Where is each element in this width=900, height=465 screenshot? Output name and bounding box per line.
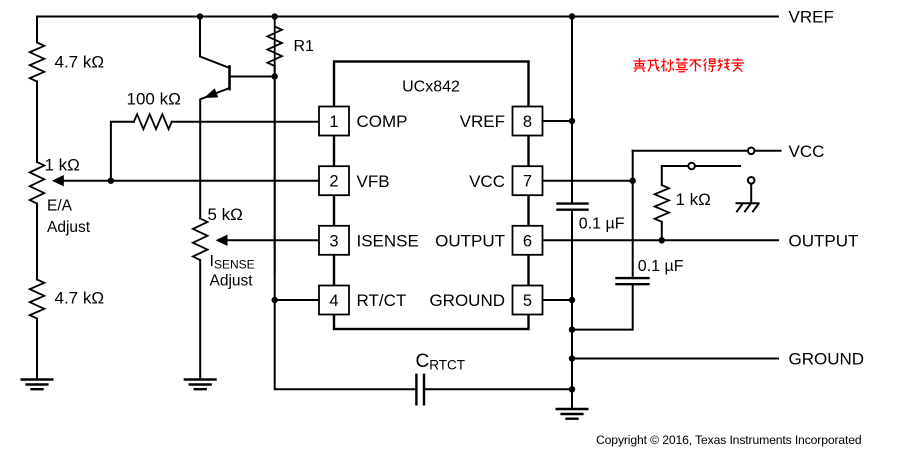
wire pin 7 VCC to branch (543, 180, 633, 182)
junction node branch return / rail (569, 326, 575, 332)
svg-text:Copyright © 2016, Texas Instru: Copyright © 2016, Texas Instruments Inco… (596, 433, 862, 447)
terminal open circle VCC (748, 148, 755, 155)
transistor Q1 emitter wire (200, 88, 229, 219)
wire pin 8 VREF to rail (543, 120, 573, 122)
wire R1 bottom node down to CRTCT (275, 66, 416, 389)
wire lower 4.7k to ground (36, 319, 38, 380)
potentiometer 1 kOhm E/A Adjust (30, 162, 45, 204)
wire VCC row to terminal (633, 150, 748, 152)
svg-text:VREF: VREF (460, 112, 505, 131)
chassis ground symbol (737, 203, 759, 211)
svg-text:OUTPUT: OUTPUT (789, 231, 859, 250)
junction node top rail / rail (569, 13, 575, 19)
arrowhead ISENSE wiper (216, 235, 228, 246)
resistor 4.7 kOhm lower-left (30, 280, 45, 319)
svg-text:8: 8 (523, 113, 532, 131)
IC U1 UCx842 body (334, 62, 529, 330)
junction node VFB / 100k (108, 178, 114, 184)
svg-text:E/A: E/A (47, 198, 73, 215)
svg-text:RT/CT: RT/CT (357, 291, 407, 310)
svg-text:OUTPUT: OUTPUT (435, 232, 505, 251)
resistor 100 kOhm (134, 114, 172, 129)
svg-text:R1: R1 (294, 38, 315, 55)
resistor R1 (267, 17, 282, 275)
wire between upper 4.7k and E/A pot (36, 82, 38, 163)
pin 2 box (319, 166, 349, 195)
wire VCC branch vertical (632, 151, 634, 278)
svg-text:VCC: VCC (789, 142, 825, 161)
ground left chain (22, 380, 53, 390)
junction node pin8 / rail (569, 118, 575, 124)
capacitor CRTCT right plate (423, 375, 425, 405)
svg-text:ISENSE: ISENSE (357, 232, 419, 251)
svg-text:0.1 µF: 0.1 µF (579, 215, 625, 232)
svg-text:1: 1 (329, 113, 338, 131)
wire CRTCT to ground rail (425, 388, 572, 390)
svg-text:6: 6 (523, 232, 532, 250)
pin 3 box (319, 226, 349, 255)
junction node R1 line / pin4 (272, 297, 278, 303)
svg-text:UCx842: UCx842 (402, 79, 460, 96)
svg-text:4.7 kΩ: 4.7 kΩ (55, 289, 105, 308)
svg-text:2: 2 (329, 173, 338, 191)
wire VREF top rail (37, 16, 778, 18)
open circle switch arm (688, 163, 695, 170)
wire pin 6 OUTPUT line (543, 239, 779, 241)
wire VREF/ground rail lower (571, 210, 573, 409)
potentiometer 5 kOhm ISENSE Adjust (193, 219, 208, 261)
wire switch arm after circle (696, 165, 740, 167)
transistor Q1 collector wire from VREF rail (200, 17, 230, 69)
junction node top rail / R1 (272, 13, 278, 19)
svg-text:VREF: VREF (789, 8, 834, 27)
pin 5 box (513, 286, 543, 315)
capacitor 0.1 uF VCC bypass top plate (617, 277, 649, 279)
wire VCC terminal tail (755, 150, 781, 152)
junction node 1k / OUTPUT (659, 237, 665, 243)
capacitor CRTCT left plate (415, 375, 417, 405)
svg-text:5 kΩ: 5 kΩ (208, 205, 243, 224)
svg-text:VCC: VCC (469, 172, 505, 191)
junction node CRTCT / rail (569, 386, 575, 392)
resistor 1 kOhm load (655, 185, 669, 222)
junction node R1 / Q1 base (272, 73, 278, 79)
transistor Q1 base bar (228, 67, 231, 90)
wire between E/A pot and lower 4.7k (36, 204, 38, 280)
svg-text:1 kΩ: 1 kΩ (676, 190, 711, 209)
wire ISENSE wiper to pin 3 (227, 239, 319, 241)
pin 6 box (513, 226, 543, 255)
arrowhead E/A wiper (52, 175, 64, 186)
svg-text:Adjust: Adjust (210, 273, 254, 290)
wire left chain top stub (36, 17, 38, 43)
pin 7 box (513, 166, 543, 195)
svg-text:COMP: COMP (357, 112, 408, 131)
ground rail (557, 409, 588, 419)
pin 1 box (319, 107, 349, 136)
svg-text:GROUND: GROUND (789, 350, 865, 369)
svg-text:4.7 kΩ: 4.7 kΩ (55, 52, 105, 71)
wire circle to chassis ground (750, 184, 752, 202)
wire E/A wiper to pin 2 VFB (64, 180, 320, 182)
wire 5k pot to ground (199, 260, 201, 380)
capacitor 0.1 uF VCC bypass bottom plate (617, 283, 649, 285)
svg-text:GROUND: GROUND (429, 291, 505, 310)
resistor 4.7 kOhm upper-left (30, 43, 45, 82)
wire Q1 base to R1 bottom node (230, 76, 275, 78)
wire VREF/ground rail upper (571, 17, 573, 204)
ground 5k pot (185, 380, 216, 390)
svg-text:3: 3 (329, 232, 338, 250)
pin 8 box (513, 107, 543, 136)
wire 100k to pin 1 COMP (172, 121, 319, 123)
wire GROUND output line (572, 358, 778, 360)
wire 100k branch vertical (111, 122, 134, 181)
svg-text:100 kΩ: 100 kΩ (127, 90, 181, 109)
svg-text:1 kΩ: 1 kΩ (45, 156, 80, 175)
wire pin 5 GROUND to rail (543, 299, 573, 301)
svg-text:4: 4 (329, 292, 338, 310)
wire 1k top stub (662, 166, 688, 185)
pin 4 box (319, 286, 349, 315)
wire 1k bottom to OUTPUT (661, 222, 663, 241)
svg-text:Adjust: Adjust (47, 219, 91, 236)
svg-text:0.1 µF: 0.1 µF (638, 258, 684, 275)
junction node top rail / Q1 collector (197, 13, 203, 19)
watermark red chinese text (634, 58, 745, 72)
svg-text:VFB: VFB (357, 172, 390, 191)
svg-text:7: 7 (523, 173, 532, 191)
wire VCC branch lower return to rail (572, 285, 633, 330)
junction node pin5 / rail (569, 297, 575, 303)
capacitor 0.1 uF VREF bypass top plate (558, 202, 588, 204)
capacitor 0.1 uF VREF bypass bottom plate (558, 208, 588, 210)
wire RT/CT pin 4 (275, 299, 319, 301)
transistor Q1 emitter arrowhead (204, 88, 218, 98)
junction node pin7 / VCC branch (630, 178, 636, 184)
junction node GROUND row / rail (569, 355, 575, 361)
open circle switch to chassis ground (748, 177, 755, 184)
svg-text:5: 5 (523, 292, 532, 310)
